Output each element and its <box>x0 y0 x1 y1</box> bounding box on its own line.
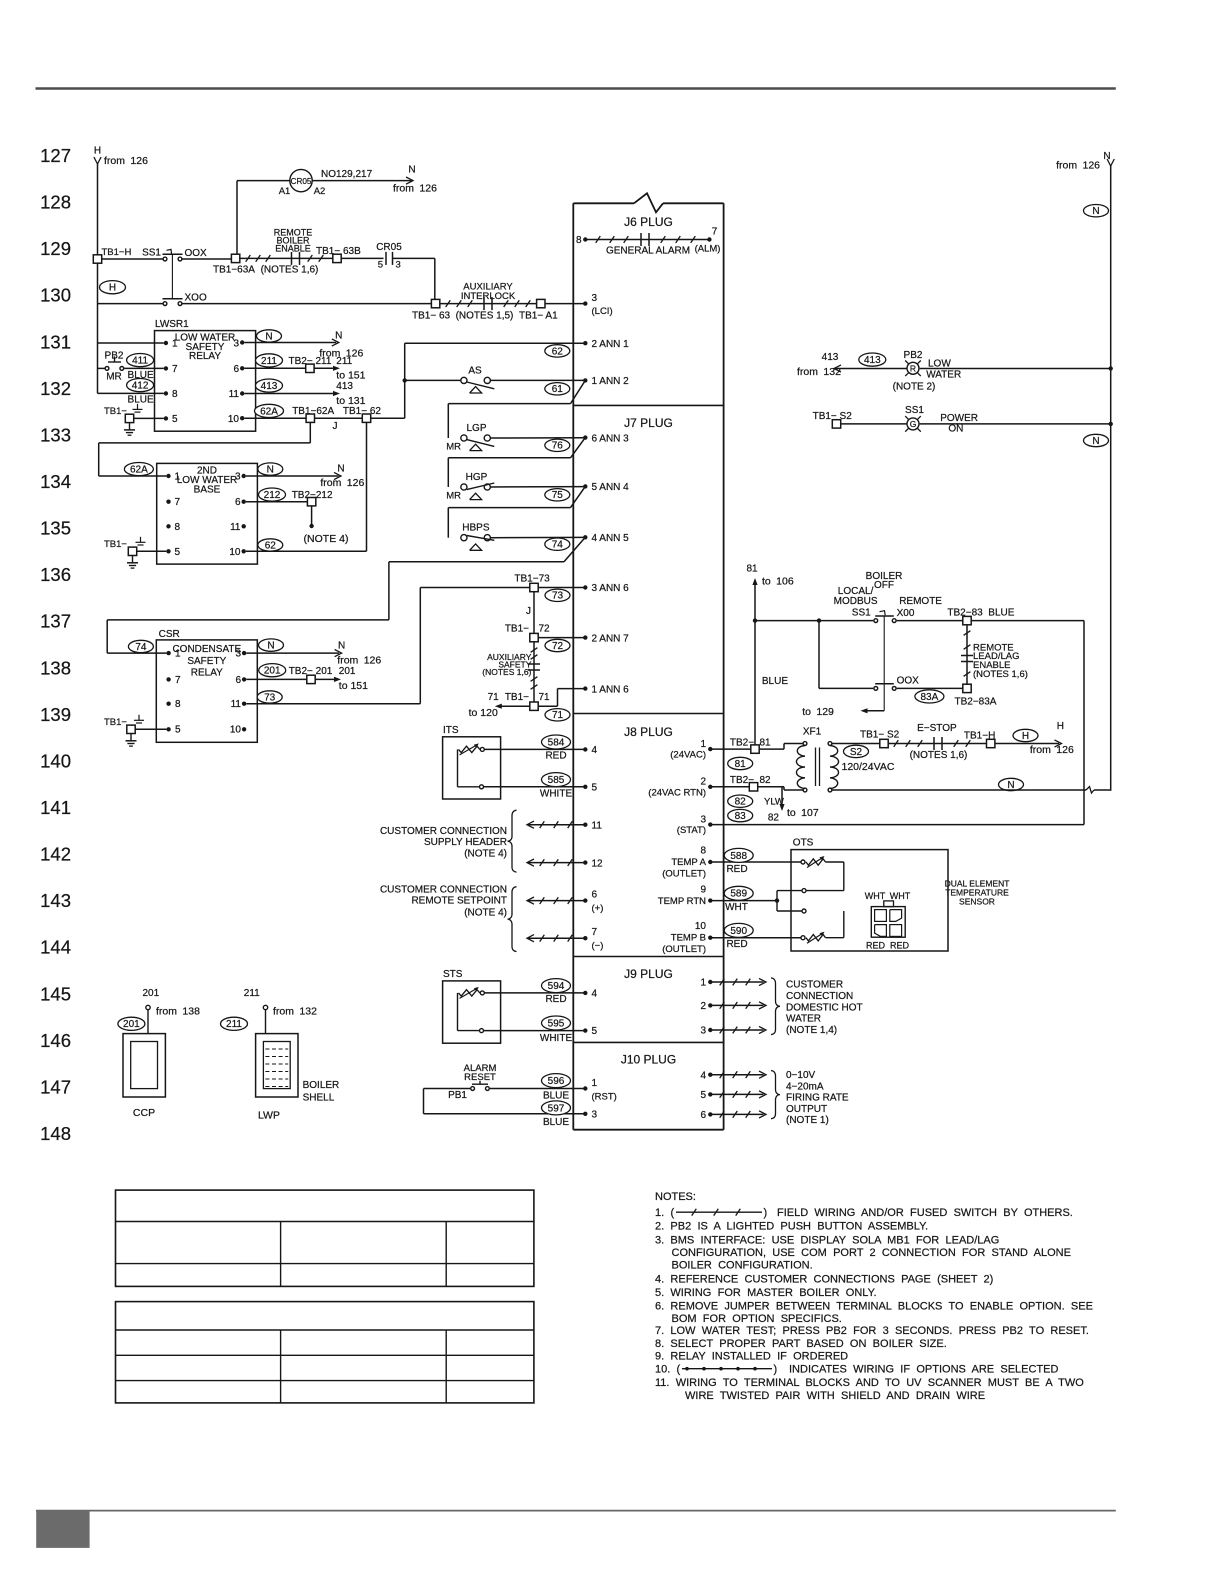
wire CR05 contact down to rung 130 <box>393 257 435 259</box>
svg-text:S2: S2 <box>850 747 863 758</box>
pressure switch HGP <box>461 484 467 490</box>
svg-text:2 ANN 1: 2 ANN 1 <box>592 339 630 350</box>
node 82 oval <box>728 795 753 807</box>
svg-text:(STAT): (STAT) <box>677 825 706 836</box>
svg-text:1 ANN 2: 1 ANN 2 <box>592 376 630 387</box>
terminal TB1-71 <box>530 702 538 710</box>
svg-text:RED: RED <box>545 994 566 1005</box>
svg-text:8: 8 <box>175 699 181 710</box>
svg-text:5: 5 <box>592 782 598 793</box>
svg-text:72: 72 <box>539 624 551 635</box>
node 62A oval LWSR1 <box>255 404 284 417</box>
table 1 <box>116 1190 534 1286</box>
flow switch AS <box>405 379 462 381</box>
svg-text:BLUE: BLUE <box>128 395 154 406</box>
plug divider J6/J7 <box>573 404 723 406</box>
pressure switch LGP <box>461 435 467 441</box>
wire into 2ND pin 1 <box>99 475 167 477</box>
svg-text:LGP: LGP <box>466 423 486 434</box>
svg-text:211: 211 <box>226 1019 242 1030</box>
wire rung 130 left <box>98 303 163 305</box>
wire J8 pin8 to OTS <box>708 860 712 864</box>
svg-text:11: 11 <box>231 699 242 710</box>
svg-text:TB1− S2: TB1− S2 <box>860 730 900 741</box>
svg-text:TB1−H: TB1−H <box>964 731 995 742</box>
svg-text:(NOTES 1,6): (NOTES 1,6) <box>482 667 531 677</box>
node 73 oval plug <box>545 589 570 601</box>
node 61 oval plug <box>545 383 570 395</box>
node 75 oval plug <box>545 489 570 501</box>
svg-text:J6 PLUG: J6 PLUG <box>624 215 673 229</box>
wire 82 to 107 <box>781 787 783 808</box>
field wiring J8 pin 11 <box>583 823 587 827</box>
node 83 oval <box>728 809 753 821</box>
svg-text:4: 4 <box>592 745 598 756</box>
terminal TB1-H estop <box>987 739 995 747</box>
svg-text:137: 137 <box>40 611 71 632</box>
svg-text:(LCI): (LCI) <box>592 306 613 317</box>
svg-text:143: 143 <box>40 890 71 911</box>
svg-text:201: 201 <box>339 666 356 677</box>
plug column box <box>573 202 634 204</box>
svg-text:CSR: CSR <box>159 629 180 640</box>
svg-text:3. BMS INTERFACE: USE DI: 3. BMS INTERFACE: USE DISPLAY SOLA MB1 F… <box>655 1235 999 1247</box>
wire J8 pin1 to TB2-81 <box>708 747 712 751</box>
svg-text:590: 590 <box>730 926 747 937</box>
node 412 oval <box>127 379 154 392</box>
svg-text:AS: AS <box>468 365 482 376</box>
svg-text:OOX: OOX <box>897 676 920 687</box>
svg-text:POWER: POWER <box>940 413 978 424</box>
wire TB1-62 to middle bus <box>371 417 405 419</box>
svg-text:211: 211 <box>336 356 352 367</box>
svg-text:83: 83 <box>735 811 747 822</box>
svg-text:FIRING RATE: FIRING RATE <box>786 1093 849 1104</box>
wire STS to J9 pin 4 <box>484 992 585 994</box>
svg-text:CUSTOMER: CUSTOMER <box>786 980 843 991</box>
mechanical link SS1 <box>171 254 173 299</box>
svg-text:N: N <box>267 465 274 476</box>
svg-text:3: 3 <box>235 472 241 483</box>
wire J8 pin9 to OTS <box>708 898 712 902</box>
wire PB1 to J10 pin 3 <box>424 1088 471 1090</box>
thermistor OTS A <box>801 860 805 864</box>
svg-text:81: 81 <box>735 759 747 770</box>
svg-text:8: 8 <box>576 235 582 246</box>
svg-text:(+): (+) <box>592 903 604 914</box>
svg-text:ITS: ITS <box>443 725 459 736</box>
svg-text:7: 7 <box>592 927 598 938</box>
svg-text:135: 135 <box>40 518 71 539</box>
ladder line numbers 127-148 <box>40 145 71 1144</box>
svg-text:SS1: SS1 <box>905 405 924 416</box>
svg-text:MR: MR <box>446 491 461 502</box>
svg-text:6: 6 <box>235 497 241 508</box>
svg-text:REMOTE SETPOINT: REMOTE SETPOINT <box>411 896 507 907</box>
svg-text:): ) <box>774 1363 778 1375</box>
svg-text:TB2−212: TB2−212 <box>292 490 333 501</box>
wire rung 129 left <box>102 258 163 260</box>
svg-text:10: 10 <box>228 414 240 425</box>
svg-text:585: 585 <box>548 775 565 786</box>
field wiring J8 pin 7 <box>583 936 587 940</box>
node 585 oval <box>542 773 571 787</box>
wire LWSR1 pin 6 to TB2-211 <box>244 367 305 369</box>
terminal TB2-81 <box>751 745 759 753</box>
svg-text:ON: ON <box>948 424 963 435</box>
svg-text:5 ANN 4: 5 ANN 4 <box>592 482 630 493</box>
svg-text:CUSTOMER CONNECTION: CUSTOMER CONNECTION <box>380 826 507 837</box>
wire J8 pin10 to OTS <box>708 936 712 940</box>
relay CSR box <box>156 640 257 742</box>
svg-text:5. WIRING FOR MASTER BOILE: 5. WIRING FOR MASTER BOILER ONLY. <box>655 1287 877 1299</box>
svg-text:5: 5 <box>175 725 181 736</box>
svg-text:SAFETY: SAFETY <box>187 656 226 667</box>
node 595 oval <box>542 1016 571 1030</box>
svg-text:128: 128 <box>40 192 71 213</box>
wire X00 rung <box>755 620 873 622</box>
node 72 oval plug <box>545 639 570 651</box>
terminal TB1-A1 <box>537 299 545 307</box>
sensor STS box <box>443 981 501 1043</box>
svg-text:E−STOP: E−STOP <box>917 723 957 734</box>
wire CSR pin 3 to N <box>246 652 339 654</box>
svg-text:6: 6 <box>592 889 598 900</box>
svg-text:FIELD WIRING AND/OR FUSED: FIELD WIRING AND/OR FUSED SWITCH BY OTHE… <box>777 1207 1073 1219</box>
node H oval estop <box>1013 729 1038 741</box>
svg-text:GENERAL ALARM: GENERAL ALARM <box>606 246 690 257</box>
svg-text:130: 130 <box>40 285 71 306</box>
svg-text:145: 145 <box>40 983 71 1004</box>
svg-text:82: 82 <box>735 797 747 808</box>
svg-text:from 126: from 126 <box>1056 160 1100 172</box>
wire TB1-62A stem to 2ND base <box>309 422 311 443</box>
node 589 oval <box>724 886 753 900</box>
svg-text:to 129: to 129 <box>802 706 834 718</box>
svg-text:N: N <box>1103 151 1110 162</box>
sensor ITS box <box>443 737 501 799</box>
middle bus vertical <box>404 343 406 418</box>
svg-text:N: N <box>337 463 344 474</box>
svg-text:72: 72 <box>552 641 564 652</box>
svg-text:1: 1 <box>175 472 181 483</box>
node 74 oval plug <box>545 538 570 550</box>
svg-text:BASE: BASE <box>194 484 221 495</box>
svg-text:TB1−62A: TB1−62A <box>292 406 334 417</box>
wire TB1-H to H from 126 <box>995 743 1059 745</box>
svg-text:N: N <box>408 165 415 176</box>
svg-text:INDICATES WIRING IF OPTIONS: INDICATES WIRING IF OPTIONS ARE SELECTED <box>789 1363 1058 1375</box>
node H oval <box>100 281 126 294</box>
thermistor STS <box>459 990 480 996</box>
svg-text:DOMESTIC HOT: DOMESTIC HOT <box>786 1002 863 1013</box>
wire right box edge <box>1083 621 1085 825</box>
node 73 oval CSR <box>257 691 282 703</box>
svg-text:TB1−: TB1− <box>104 406 127 417</box>
terminal TB1-63A <box>231 254 239 262</box>
svg-text:140: 140 <box>40 750 71 771</box>
terminal TB2-211 <box>306 364 314 372</box>
wire TB2-211 arrow to 151 <box>314 367 336 369</box>
selector switch SS1 contact XOO (line 130) <box>163 302 167 306</box>
svg-text:RED: RED <box>545 751 566 762</box>
svg-text:(NOTE 4): (NOTE 4) <box>464 849 507 860</box>
svg-text:OOX: OOX <box>185 248 208 259</box>
svg-text:1: 1 <box>175 649 181 660</box>
wire LWSR1 pin 10 to TB1-62A <box>244 417 306 419</box>
svg-text:RED: RED <box>726 939 747 950</box>
svg-text:G: G <box>910 419 917 429</box>
svg-text:to 151: to 151 <box>336 370 365 382</box>
svg-text:to 106: to 106 <box>762 576 794 588</box>
terminal TB1-H <box>93 255 101 263</box>
wire 81 to 106 <box>752 578 757 585</box>
svg-text:(: ( <box>671 1207 675 1219</box>
node 597 oval <box>542 1101 571 1115</box>
terminal TB1-63 <box>431 299 439 307</box>
svg-text:(24VAC): (24VAC) <box>670 750 706 761</box>
terminal TB2-212 <box>307 498 315 506</box>
plug divider J8/J9 <box>573 956 723 958</box>
wire STS to J9 pin 5 <box>484 1030 586 1032</box>
node 62A oval 2ND <box>124 463 153 476</box>
svg-text:from 126: from 126 <box>337 655 381 667</box>
svg-text:3: 3 <box>700 814 706 825</box>
footer gray block <box>36 1510 89 1548</box>
wire PB2 to LWSR1 pin 7 <box>124 367 163 369</box>
svg-text:TB2− 211: TB2− 211 <box>289 356 332 367</box>
svg-text:7: 7 <box>712 227 718 238</box>
svg-text:TB2−83: TB2−83 <box>947 608 983 619</box>
wire TB1-72 to J7 pin 2ANN7 <box>538 637 585 639</box>
svg-text:WIRE TWISTED PAIR WITH SHI: WIRE TWISTED PAIR WITH SHIELD AND DRAIN … <box>685 1390 985 1402</box>
svg-text:(NOTE 4): (NOTE 4) <box>304 533 349 545</box>
svg-text:83A: 83A <box>921 692 939 703</box>
svg-text:146: 146 <box>40 1030 71 1051</box>
svg-text:to 131: to 131 <box>336 395 365 407</box>
field wiring J8 pin 12 <box>583 860 587 864</box>
wire TB1-62A to TB1-62 <box>315 417 363 419</box>
node 413 oval right <box>859 353 886 366</box>
svg-text:OUTPUT: OUTPUT <box>786 1104 827 1115</box>
svg-text:2: 2 <box>700 777 706 788</box>
selector switch SS1 contact OOX (line 129) <box>163 257 167 261</box>
svg-text:(: ( <box>677 1363 681 1375</box>
svg-text:(NOTES 1,6): (NOTES 1,6) <box>910 750 968 761</box>
svg-text:TB1−: TB1− <box>104 717 127 728</box>
wire 74 feeder <box>389 561 564 563</box>
svg-text:SENSOR: SENSOR <box>959 897 995 907</box>
svg-text:62: 62 <box>552 346 564 357</box>
node N oval CSR <box>259 639 284 651</box>
wire OOX to TB2-83A <box>897 687 963 689</box>
svg-text:3: 3 <box>233 338 239 349</box>
svg-text:TB1− 63: TB1− 63 <box>412 310 451 321</box>
fused chain REMOTE LEAD/LAG ENABLE <box>966 625 968 684</box>
svg-text:N: N <box>335 330 342 341</box>
svg-text:SS1: SS1 <box>142 248 161 259</box>
2ND pin dots and numbers <box>166 474 170 478</box>
top border rule <box>36 87 1116 89</box>
svg-text:8. SELECT PROPER PART BASE: 8. SELECT PROPER PART BASED ON BOILER SI… <box>655 1338 947 1350</box>
terminal TB2-82 <box>749 783 757 791</box>
fused chain AUXILIARY SAFETY <box>533 642 535 702</box>
svg-text:11: 11 <box>229 389 240 400</box>
svg-text:ENABLE: ENABLE <box>275 244 311 254</box>
wire 413 from 132 <box>834 365 841 372</box>
svg-text:6: 6 <box>700 1110 706 1121</box>
field wiring J9 pin 3 <box>708 1028 712 1032</box>
svg-text:0−10V: 0−10V <box>786 1070 816 1081</box>
svg-text:74: 74 <box>552 540 564 551</box>
terminal TB2-83 <box>963 616 971 624</box>
svg-text:6: 6 <box>233 364 239 375</box>
node 212 oval <box>259 488 286 501</box>
svg-text:62A: 62A <box>130 465 148 476</box>
plug divider J9/J10 <box>573 1041 723 1043</box>
svg-text:75: 75 <box>552 490 564 501</box>
svg-text:5: 5 <box>592 1026 598 1037</box>
wire HBPS loop <box>448 507 570 509</box>
svg-text:211: 211 <box>261 356 277 367</box>
svg-text:CCP: CCP <box>133 1107 155 1119</box>
pushbutton PB2 <box>105 367 109 371</box>
svg-text:(−): (−) <box>592 941 604 952</box>
svg-text:N: N <box>338 640 345 651</box>
wire TB1-S2 to lamp G <box>841 423 907 425</box>
svg-text:588: 588 <box>730 851 747 862</box>
svg-text:CR05: CR05 <box>291 177 312 186</box>
svg-text:PB2: PB2 <box>904 350 923 361</box>
svg-text:BLUE: BLUE <box>543 1090 569 1101</box>
svg-text:WHT: WHT <box>890 891 911 901</box>
svg-text:MR: MR <box>446 442 461 453</box>
svg-text:6 ANN 3: 6 ANN 3 <box>592 433 630 444</box>
svg-text:10.: 10. <box>655 1363 670 1375</box>
svg-text:1: 1 <box>700 978 706 989</box>
brace customer connection remote setpoint <box>508 887 517 952</box>
svg-text:REMOTE: REMOTE <box>899 596 942 607</box>
field wiring J10 pin 4 <box>708 1073 712 1077</box>
svg-text:129: 129 <box>40 238 71 259</box>
svg-text:(NOTES 1,6): (NOTES 1,6) <box>261 265 319 276</box>
wire to 129 <box>863 710 884 712</box>
svg-text:RELAY: RELAY <box>189 351 221 362</box>
node 201 oval CSR <box>259 664 286 677</box>
svg-text:73: 73 <box>264 692 276 703</box>
svg-text:127: 127 <box>40 145 71 166</box>
svg-text:from 126: from 126 <box>104 155 148 167</box>
svg-text:1: 1 <box>172 338 178 349</box>
svg-text:TB1− 63B: TB1− 63B <box>316 246 361 257</box>
svg-text:A2: A2 <box>314 186 326 197</box>
svg-text:71: 71 <box>539 692 551 703</box>
node 411 oval <box>127 354 154 367</box>
svg-text:82: 82 <box>768 813 780 824</box>
svg-text:N: N <box>267 641 274 652</box>
svg-text:LWP: LWP <box>258 1110 280 1122</box>
svg-text:TEMP RTN: TEMP RTN <box>658 896 706 907</box>
svg-text:10: 10 <box>695 921 707 932</box>
svg-text:5: 5 <box>700 1090 706 1101</box>
svg-text:138: 138 <box>40 657 71 678</box>
contact CR05 5-3 <box>385 252 387 265</box>
terminal TB1-72 <box>530 633 538 641</box>
svg-text:TB1− 62: TB1− 62 <box>343 406 382 417</box>
svg-text:TEMP B: TEMP B <box>671 933 706 944</box>
svg-text:4: 4 <box>592 989 598 1000</box>
svg-text:6. REMOVE JUMPER BETWEEN T: 6. REMOVE JUMPER BETWEEN TERMINAL BLOCKS… <box>655 1300 1093 1312</box>
svg-text:411: 411 <box>132 356 148 367</box>
svg-text:11: 11 <box>592 820 603 831</box>
svg-text:CR05: CR05 <box>376 242 402 253</box>
OTS connector symbol <box>871 907 905 938</box>
field wiring J10 pin 6 <box>708 1112 712 1116</box>
wire LWSR1 pin 3 to N <box>244 342 336 344</box>
wire CSR pin 6 to TB2-201 <box>246 678 306 680</box>
node 81 oval <box>728 757 753 769</box>
svg-text:TB1−73: TB1−73 <box>514 574 550 585</box>
wire XF1 secondary bottom to bus <box>832 789 1086 791</box>
LWSR1 pin dots and numbers <box>164 341 168 345</box>
svg-text:1 ANN 6: 1 ANN 6 <box>592 684 630 695</box>
terminal TB1-62A <box>306 414 314 422</box>
svg-text:PB2: PB2 <box>105 351 124 362</box>
fused field wiring E-STOP <box>888 743 986 745</box>
wire HGP to 5 ANN 4 <box>490 486 586 488</box>
mechanical link SS1 right <box>883 616 885 711</box>
svg-text:1.: 1. <box>655 1207 664 1219</box>
node N oval right 2 <box>1084 434 1109 446</box>
svg-text:7: 7 <box>172 364 178 375</box>
svg-text:8: 8 <box>172 389 178 400</box>
svg-text:to 107: to 107 <box>787 807 819 819</box>
svg-text:(ALM): (ALM) <box>695 244 721 255</box>
svg-text:4 ANN 5: 4 ANN 5 <box>592 533 630 544</box>
svg-text:A1: A1 <box>279 186 291 197</box>
svg-text:to 151: to 151 <box>339 680 368 692</box>
svg-text:(NOTES 1,6): (NOTES 1,6) <box>973 669 1028 680</box>
svg-text:(NOTE 1,4): (NOTE 1,4) <box>786 1025 837 1036</box>
wire TB1-73 to J7 pin 3ANN6 <box>538 587 585 589</box>
svg-text:120/24VAC: 120/24VAC <box>842 761 895 773</box>
pressure switch HBPS <box>461 535 467 541</box>
svg-text:81: 81 <box>746 564 758 575</box>
node N oval 2ND <box>258 463 283 475</box>
thermistor OTS B <box>802 909 806 913</box>
svg-text:HBPS: HBPS <box>462 522 490 533</box>
wire TB2-201 arrow to 151 <box>315 678 337 680</box>
bottom border rule <box>36 1510 1116 1512</box>
svg-text:413: 413 <box>864 355 881 366</box>
svg-text:WATER: WATER <box>926 370 961 381</box>
svg-text:H: H <box>1057 721 1064 732</box>
svg-text:(24VAC RTN): (24VAC RTN) <box>648 787 706 798</box>
svg-text:STS: STS <box>443 969 463 980</box>
svg-text:J: J <box>333 421 338 432</box>
node N oval xfmr <box>999 778 1024 790</box>
node 83A oval <box>915 690 944 703</box>
svg-text:144: 144 <box>40 937 71 958</box>
svg-text:TB2−: TB2− <box>730 775 754 786</box>
field wiring J10 pin 5 <box>708 1092 712 1096</box>
svg-text:11: 11 <box>230 522 241 533</box>
svg-text:MR: MR <box>106 371 122 382</box>
svg-text:413: 413 <box>336 381 353 392</box>
svg-text:SS1: SS1 <box>852 608 871 619</box>
svg-text:3: 3 <box>592 293 598 304</box>
svg-text:71: 71 <box>552 710 564 721</box>
